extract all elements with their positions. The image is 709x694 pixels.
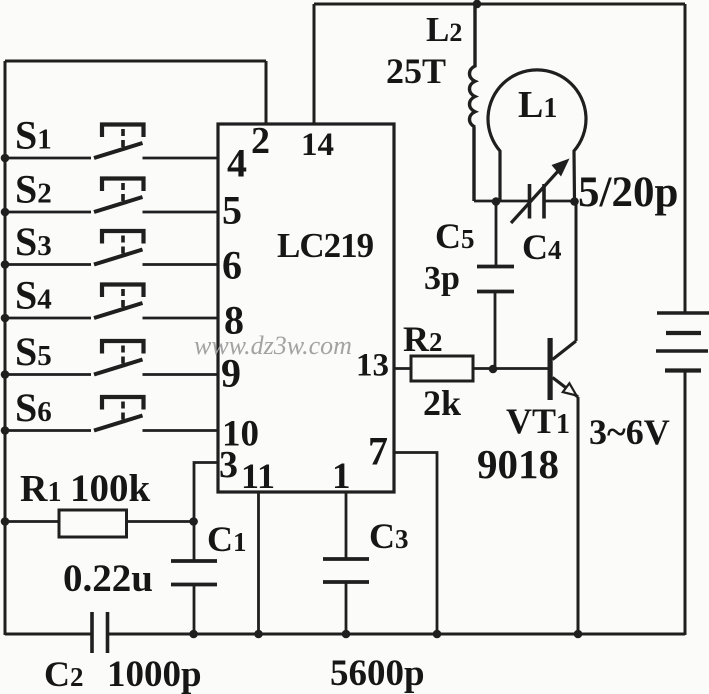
wire node to C5 <box>495 201 498 267</box>
node left rail S4 <box>1 314 10 323</box>
wire bottom rail left <box>5 633 92 636</box>
switch S2 <box>5 179 218 213</box>
svg-text:25T: 25T <box>386 51 446 91</box>
transistor VT1 9018 <box>548 201 579 400</box>
svg-text:13: 13 <box>356 348 389 384</box>
inductor L2 <box>469 4 475 201</box>
wire right rail upper (to battery +) <box>684 4 687 314</box>
battery GB 3~6V <box>656 313 709 371</box>
node left rail R1 <box>1 517 10 526</box>
wire C4 right plate to L1 right lead <box>544 200 575 203</box>
inductor L1 loop antenna <box>488 70 586 201</box>
svg-text:2: 2 <box>251 120 270 162</box>
svg-text:www.dz3w.com: www.dz3w.com <box>194 331 352 360</box>
node base / C5 <box>489 365 498 374</box>
wire top rail <box>314 3 685 6</box>
node top rail / L2 junction <box>473 0 482 8</box>
node bottom rail pin11 <box>254 630 263 639</box>
wire pin1 to C3 <box>345 492 348 559</box>
wire node to C1 <box>193 522 196 562</box>
node left rail S5 <box>1 370 10 379</box>
node bottom rail emitter <box>574 630 583 639</box>
capacitor C2 <box>92 612 108 653</box>
wire pin14 riser <box>313 4 316 124</box>
node left rail S3 <box>1 260 10 269</box>
svg-text:3p: 3p <box>424 260 460 297</box>
svg-text:4: 4 <box>227 141 247 186</box>
svg-text:LC219: LC219 <box>277 226 374 265</box>
wire C1 to bottom rail <box>193 585 196 636</box>
svg-text:5600p: 5600p <box>330 653 425 694</box>
capacitor C1 <box>171 561 217 585</box>
switch S6 <box>5 397 218 431</box>
node left rail S2 <box>1 208 10 217</box>
svg-text:2k: 2k <box>423 383 461 423</box>
wire bottom rail right <box>108 633 686 636</box>
wire L2 to C4 left plate <box>474 200 530 203</box>
resistor R1 <box>59 510 127 537</box>
wire emitter to bottom rail <box>577 397 580 635</box>
svg-text:6: 6 <box>222 243 242 288</box>
switch S4 <box>5 285 218 319</box>
capacitor C4 variable <box>511 159 570 224</box>
svg-text:R1100k: R1100k <box>20 467 151 510</box>
node left rail S1 <box>1 154 10 163</box>
op-amp / IC U1 LC219 box <box>218 124 394 492</box>
wire C5 to base node <box>494 292 497 370</box>
svg-text:1: 1 <box>332 456 351 497</box>
wire pin2 riser <box>265 61 268 124</box>
svg-text:5: 5 <box>222 188 242 233</box>
svg-text:C21000p: C21000p <box>44 654 202 694</box>
wire pin13 to R2 <box>394 367 411 370</box>
node bottom rail C3 <box>342 630 351 639</box>
svg-text:11: 11 <box>241 456 275 496</box>
wire R1 right to node <box>127 520 194 523</box>
svg-text:5/20p: 5/20p <box>578 169 678 216</box>
wire left rail <box>4 61 7 635</box>
svg-text:3~6V: 3~6V <box>589 412 670 452</box>
wire pin7 to bottom rail <box>394 453 437 636</box>
capacitor C3 <box>323 559 369 582</box>
capacitor C5 <box>477 267 514 292</box>
wire C3 to bottom rail <box>345 582 348 635</box>
node L1 left lead <box>492 197 501 206</box>
svg-text:0.22u: 0.22u <box>63 557 153 600</box>
switch S5 <box>5 341 218 375</box>
wire R1 left <box>5 520 59 523</box>
wire left top rail <box>5 60 266 63</box>
wire right rail lower (battery - to bottom rail) <box>684 371 687 636</box>
svg-text:9018: 9018 <box>477 441 559 487</box>
switch S3 <box>5 231 218 265</box>
node L1 right lead <box>570 197 579 206</box>
node bottom rail C1 <box>189 630 198 639</box>
svg-text:14: 14 <box>301 127 334 163</box>
svg-text:3: 3 <box>219 444 238 486</box>
resistor R2 <box>411 356 473 381</box>
node R1/C1/pin3 <box>189 517 198 526</box>
wire R2 to base <box>473 367 548 370</box>
svg-text:7: 7 <box>368 429 388 474</box>
node left rail S6 <box>1 426 10 435</box>
wire pin3 to R1/C1 node <box>194 463 218 522</box>
wire pin11 to bottom rail <box>257 492 260 635</box>
switch S1 <box>5 125 218 159</box>
node bottom rail pin7 <box>433 630 442 639</box>
